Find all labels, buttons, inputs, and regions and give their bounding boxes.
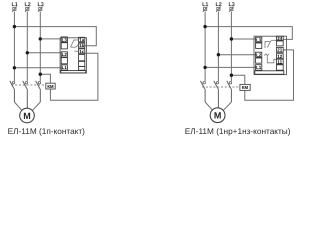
wire to motor right (left) [33,102,41,110]
node L3 tap (right) [230,37,233,40]
wire L3 to coil KM top [40,74,50,83]
terminal clamp right 2 (left relay) [79,61,85,66]
wire L1 vertical (right) [204,12,206,82]
svg-text:1b: 1b [79,43,85,48]
wire L1 vertical (left) [13,12,15,82]
terminal 21 (right relay) [276,47,283,52]
wire L3 vertical (left) [39,12,41,82]
relay U1 body (left, EL-11M) [60,38,86,73]
terminal base strip (right relay) [255,71,284,74]
wire L1 to relay terminal L1 [14,67,61,69]
terminal 24 (right relay) [276,36,283,41]
svg-text:1c: 1c [79,49,85,54]
terminal L3 (right relay) [256,37,262,42]
node L1 tap [13,25,16,28]
wire L1 to relay top-right terminal (hook) [14,27,96,46]
breaker QF2 (right L2) [216,7,221,12]
wire L2 to relay terminal L2 [27,52,61,54]
contactor contact KM.1 (right) [201,81,206,102]
motor M (left) [20,108,35,123]
terminal base strip (left relay) [61,71,86,73]
wire L3 vertical (right) [230,12,232,82]
terminal 11 (right relay) [276,59,283,64]
contactor contact KM.2 (right) [214,81,219,108]
wire to motor right (right) [224,102,232,110]
svg-text:L2: L2 [62,52,68,57]
terminal clamp right 1 (left relay) [79,55,85,61]
internal NO contact (right relay) [265,40,276,48]
svg-text:12: 12 [277,54,283,59]
node L1 lower tap (right) [203,66,206,69]
terminal 12 (right relay) [276,54,283,59]
svg-text:21: 21 [277,48,283,53]
terminal L1 (right relay) [256,65,262,71]
contactor contact KM.3 (right) [227,81,232,102]
svg-text:ЕЛ-11М (1нр+1нз-контакты): ЕЛ-11М (1нр+1нз-контакты) [185,127,291,136]
wire L3 to relay terminal L3 [40,38,61,40]
breaker QF1 (right L1) [203,7,208,12]
svg-text:1a: 1a [79,37,85,42]
svg-text:L3: L3 [256,37,262,42]
coil KM (left) [46,83,55,89]
svg-text:ЕЛ-11М (1п-контакт): ЕЛ-11М (1п-контакт) [8,127,86,136]
node L3 coil tap [39,73,42,76]
svg-text:M: M [214,111,222,121]
internal changeover contact (left relay) [71,40,79,51]
wire coil KM bottom to relay NO terminal [50,53,98,100]
svg-text:L1: L1 [256,65,262,70]
svg-text:24: 24 [277,36,283,41]
wire to motor left (left) [14,102,21,110]
contactor contact KM.1 (left) [10,81,15,102]
node L1 lower tap [13,66,16,69]
breaker QF2 (left L2) [25,7,30,12]
svg-text:КМ: КМ [47,84,54,89]
terminal L2 (left relay) [61,52,67,57]
svg-text:M: M [23,111,31,121]
contactor contact KM.2 (left) [23,81,28,108]
node L1 tap (right) [203,25,206,28]
internal NC contact (right relay) [264,54,276,63]
terminal 1a (left relay contact common) [79,37,85,42]
node L2 tap [26,51,29,54]
node L2 tap (right) [217,53,220,56]
svg-text:L2: L2 [256,52,262,57]
terminal L1 (left relay) [61,65,67,70]
terminal 1c (left relay contact NO) [79,49,85,54]
breaker QF3 (right L3) [229,7,234,12]
svg-text:11: 11 [277,59,282,64]
wire L3 to coil KM top (right) [231,75,244,84]
wire L1 to relay terminal 24 (hook, right) [205,27,292,40]
motor M (right) [210,108,225,123]
svg-text:L1: L1 [62,65,68,70]
breaker QF1 (left L1) [12,7,17,12]
terminal clamp below L3 [61,43,67,49]
contactor contact KM.3 (left) [36,81,41,102]
wire L2 vertical (right) [217,12,219,82]
terminal clamp below L2 [61,58,67,64]
node L3 coil tap (right) [230,74,233,77]
terminal L3 (left relay) [61,37,67,42]
terminal L2 (right relay) [256,52,262,57]
wire L1 to relay terminal L1 (right) [205,66,256,68]
terminal 22 (right relay) [276,41,283,46]
svg-text:L3: L3 [62,37,68,42]
relay U2 body (right, EL-11M) [254,36,287,74]
mechanical link dashed (right contactor) [202,86,240,88]
wire coil KM bottom to relay terminal 21 (right) [245,50,294,100]
node L3 tap [39,37,42,40]
breaker QF3 (left L3) [38,7,43,12]
wire L2 vertical (left) [26,12,28,82]
terminal 1b (left relay contact NC) [79,43,85,48]
coil KM (right) [240,84,250,90]
svg-text:КМ: КМ [242,85,249,90]
terminal clamp below L3 (right relay) [256,43,262,48]
terminal clamp right bottom (right relay) [276,65,283,70]
mechanical link dashed (left contactor) [11,84,45,86]
terminal clamp right 3 (left relay) [79,66,85,70]
wire L2 to relay terminal L2 (right) [218,54,255,56]
wire L3 to relay terminal L3 (right) [231,38,255,40]
terminal clamp below L2 (right relay) [256,58,262,63]
wire to motor left (right) [205,102,212,110]
